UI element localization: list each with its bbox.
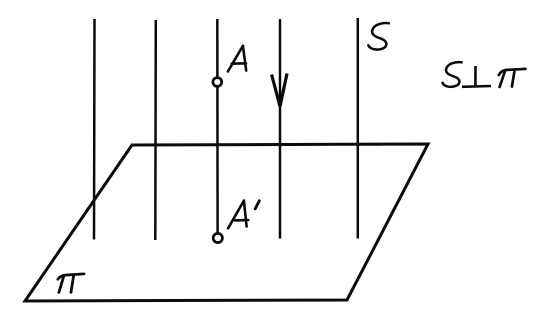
plane pi parallelogram — [25, 144, 428, 301]
label S on line — [368, 23, 389, 49]
projecting line 4 with arrow — [279, 19, 282, 239]
caption pi of S perp pi — [499, 69, 526, 87]
point A circle — [213, 78, 222, 87]
point A' circle — [213, 233, 222, 242]
label A' — [228, 201, 248, 229]
label pi on plane — [58, 274, 84, 293]
perpendicular symbol — [462, 66, 491, 87]
projecting line 2 — [154, 20, 157, 240]
projecting line 1 — [93, 19, 96, 240]
projecting line S — [357, 18, 360, 239]
projecting line 3 through A — [216, 19, 219, 233]
prime mark of A' — [255, 201, 259, 209]
label A — [228, 46, 246, 72]
arrow on line 4 — [272, 74, 287, 107]
caption S of S perp pi — [443, 62, 462, 87]
